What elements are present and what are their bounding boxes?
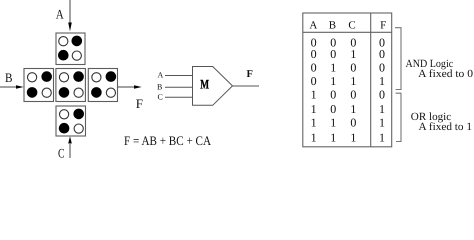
row 7: 1 1 0 -> 1 (311, 115, 385, 129)
svg-text:1: 1 (379, 115, 385, 129)
svg-text:M: M (200, 76, 209, 91)
svg-text:0: 0 (311, 74, 317, 88)
row 2: 0 0 1 -> 0 (311, 47, 385, 61)
QCA cell middle-right (output cell) (88, 69, 117, 102)
svg-text:1: 1 (311, 102, 317, 116)
svg-text:A fixed to 0: A fixed to 0 (418, 68, 473, 80)
svg-text:B: B (5, 70, 13, 85)
svg-text:1: 1 (350, 131, 356, 145)
svg-text:C: C (348, 20, 355, 32)
row 3: 0 1 0 -> 0 (311, 60, 385, 74)
wire gate input A (165, 75, 193, 77)
row 8: 1 1 1 -> 1 (311, 131, 385, 145)
wire input A arrow (68, 0, 72, 31)
truth table outer border (303, 13, 392, 147)
svg-text:1: 1 (311, 115, 317, 129)
truth table data rows (311, 35, 385, 144)
svg-text:1: 1 (311, 131, 317, 145)
svg-text:C: C (58, 146, 65, 158)
svg-text:0: 0 (330, 47, 336, 61)
svg-text:A: A (158, 71, 164, 80)
svg-text:F: F (380, 20, 386, 32)
row 1: 0 0 0 -> 0 (311, 35, 385, 49)
bracket AND section (rows 1-4) (395, 28, 401, 90)
row 6: 1 0 1 -> 1 (311, 102, 385, 116)
svg-text:C: C (158, 92, 163, 101)
svg-text:0: 0 (330, 102, 336, 116)
svg-text:0: 0 (379, 60, 385, 74)
wire input C arrow (68, 136, 72, 158)
wire gate input C (165, 96, 193, 98)
svg-text:F: F (247, 69, 253, 80)
svg-text:0: 0 (311, 47, 317, 61)
svg-text:0: 0 (350, 87, 356, 101)
svg-text:1: 1 (350, 47, 356, 61)
bracket OR section (rows 5-8) (396, 93, 401, 141)
svg-text:1: 1 (350, 102, 356, 116)
svg-text:0: 0 (379, 47, 385, 61)
svg-text:0: 0 (311, 60, 317, 74)
svg-text:F: F (136, 96, 143, 111)
svg-text:B: B (157, 82, 162, 91)
QCA cell bottom (input C cell) (56, 106, 86, 136)
wire gate input B (165, 86, 193, 88)
svg-text:1: 1 (330, 74, 336, 88)
svg-text:1: 1 (330, 115, 336, 129)
svg-text:1: 1 (311, 87, 317, 101)
svg-text:A fixed to 1: A fixed to 1 (419, 121, 473, 133)
svg-text:1: 1 (350, 74, 356, 88)
wire input B arrow (0, 85, 24, 89)
svg-text:0: 0 (350, 60, 356, 74)
QCA cell top (input A cell) (56, 33, 85, 65)
truth table header row A B C F (309, 20, 386, 32)
svg-text:1: 1 (379, 131, 385, 145)
svg-text:0: 0 (350, 115, 356, 129)
row 5: 1 0 0 -> 0 (311, 87, 385, 101)
svg-text:A: A (309, 20, 317, 32)
svg-text:A: A (56, 6, 65, 21)
wire output F arrow (118, 85, 142, 89)
svg-text:0: 0 (379, 87, 385, 101)
svg-text:F = AB + BC + CA: F = AB + BC + CA (124, 133, 212, 148)
QCA cell middle-left (input B cell) (24, 69, 54, 102)
svg-text:1: 1 (379, 102, 385, 116)
wire gate output (233, 85, 260, 87)
svg-text:0: 0 (330, 87, 336, 101)
truth table column separator line (370, 13, 372, 147)
svg-text:1: 1 (330, 60, 336, 74)
majority gate M body (193, 67, 233, 106)
QCA cell center (device cell) (56, 69, 86, 102)
svg-text:B: B (329, 20, 336, 32)
svg-text:1: 1 (379, 74, 385, 88)
row 4: 0 1 1 -> 1 (311, 74, 385, 88)
truth table header underline (303, 31, 392, 33)
svg-text:1: 1 (330, 131, 336, 145)
